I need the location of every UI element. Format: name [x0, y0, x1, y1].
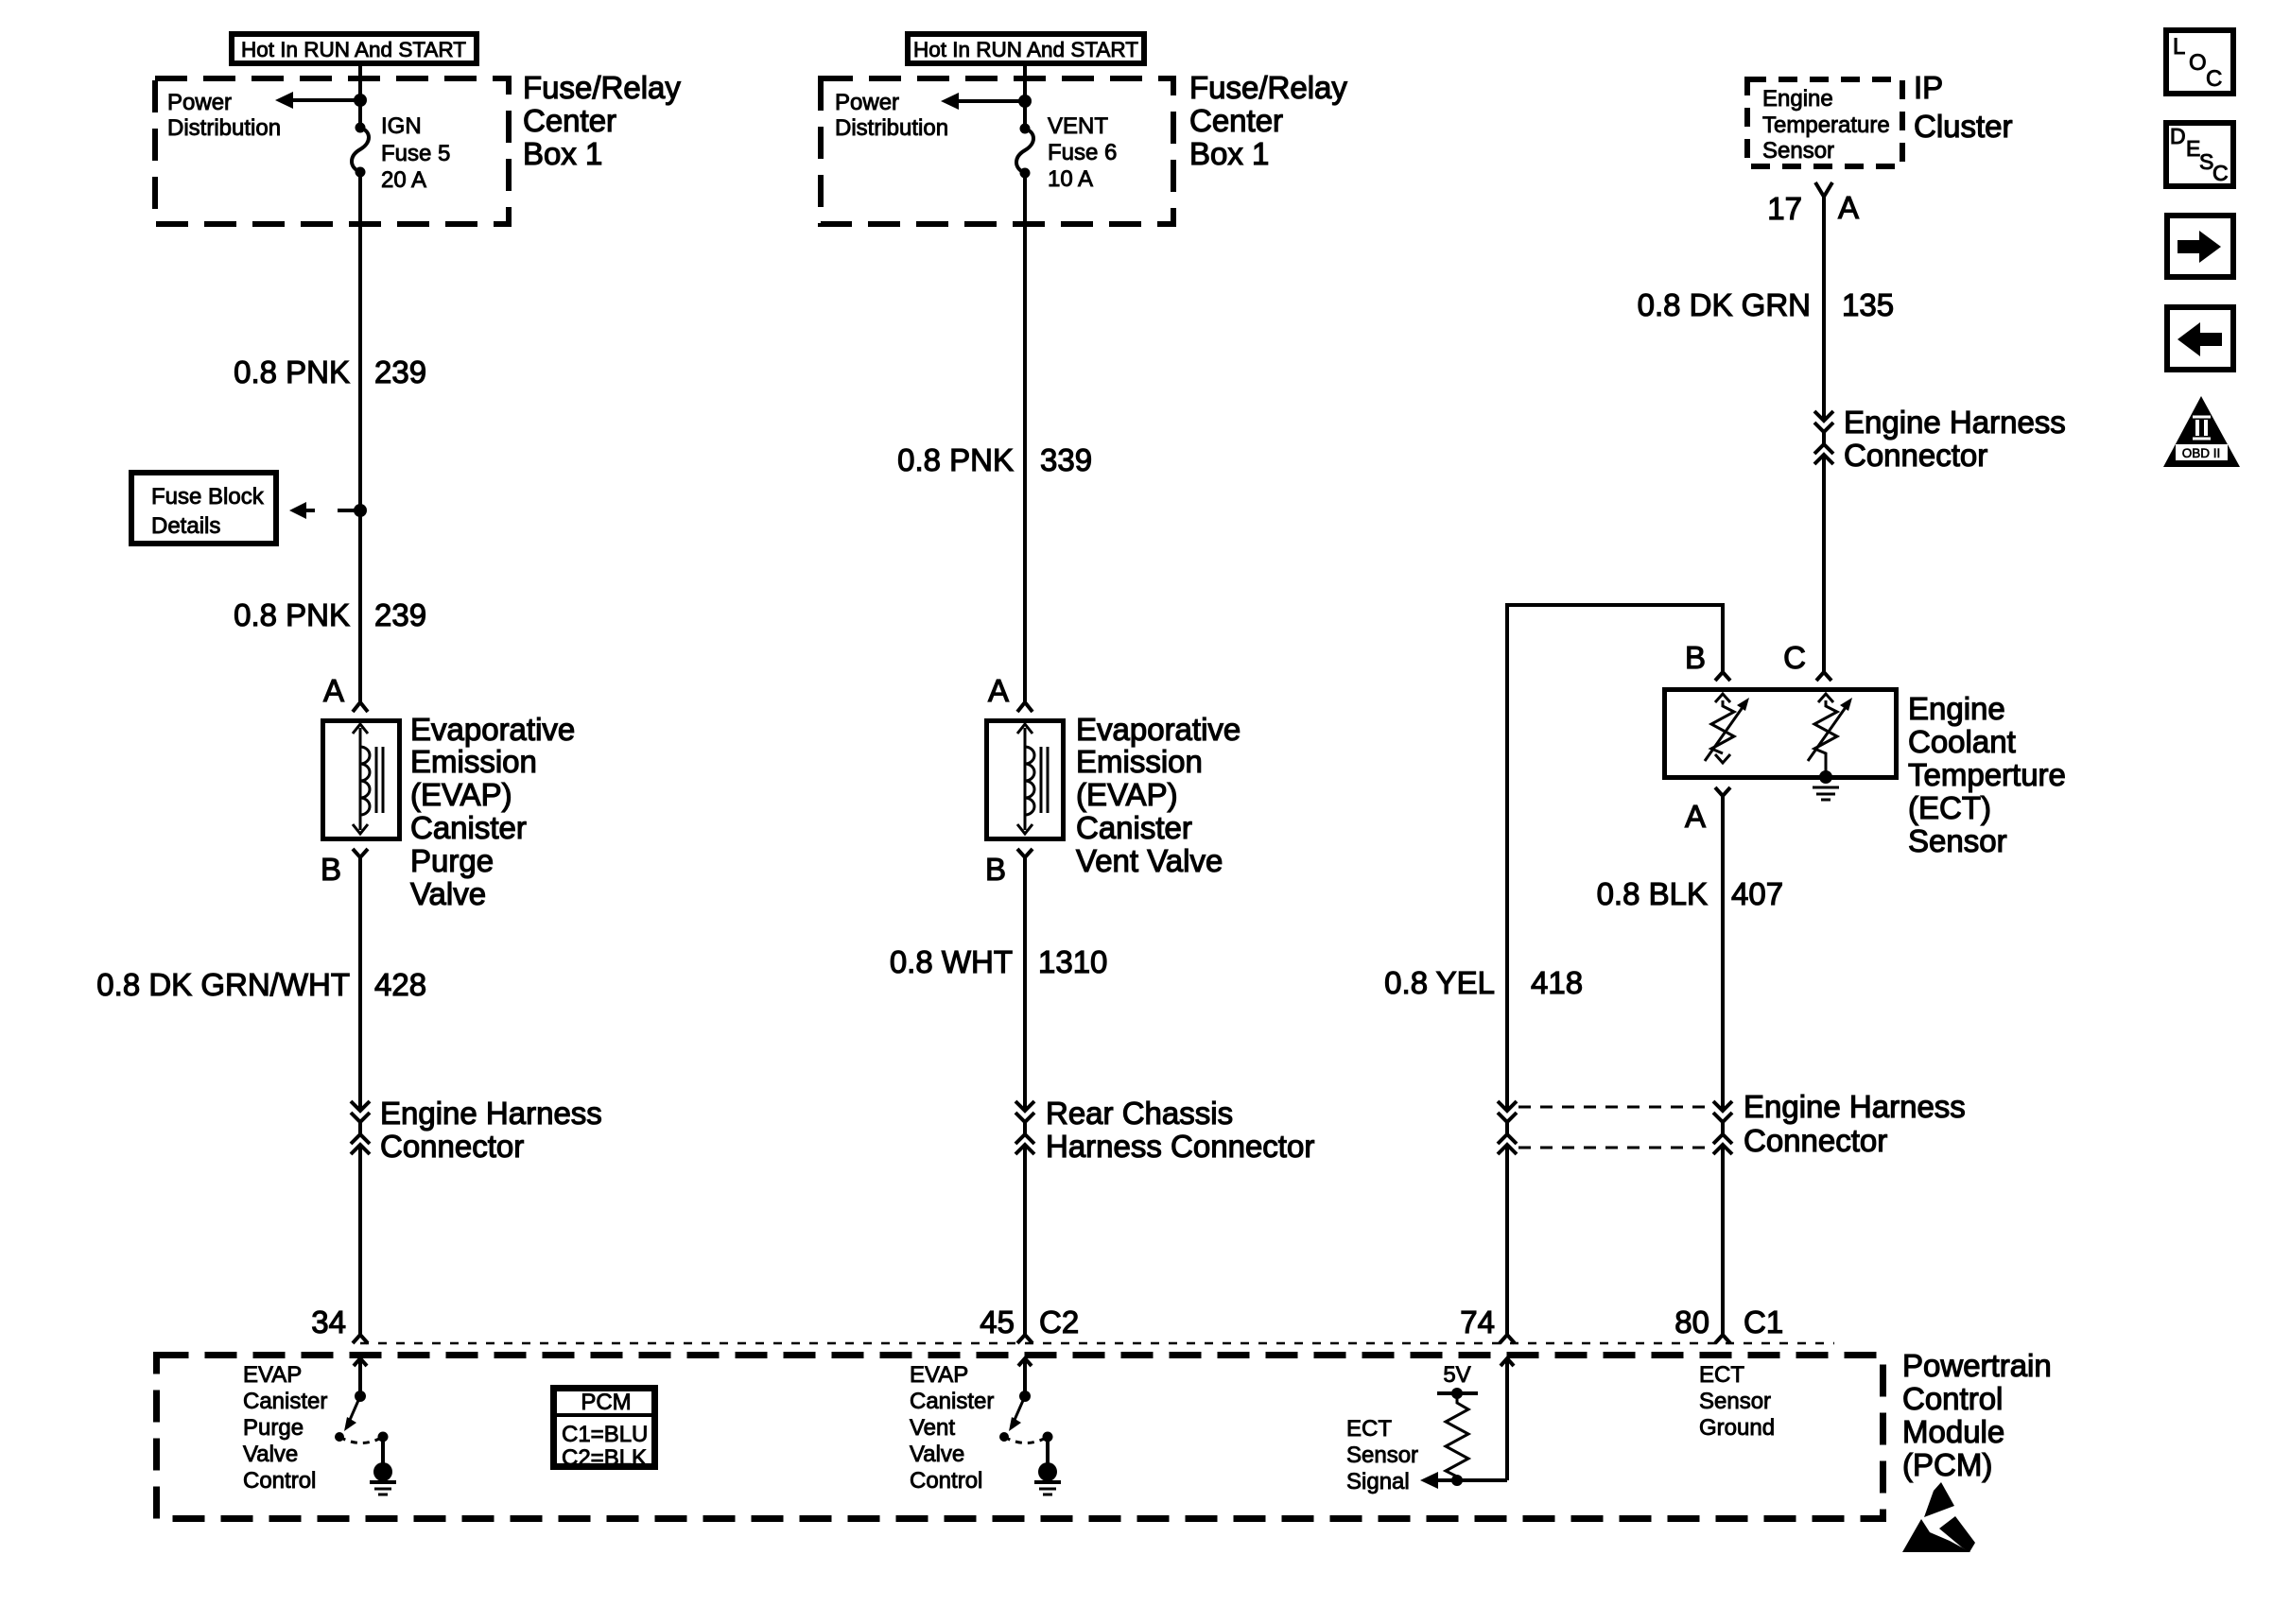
component: Powertrain Control Module dashed box — [157, 1356, 1883, 1519]
label: Fuse/Relay Center Box 1 (col 2) — [1189, 70, 1347, 171]
svg-text:0.8 BLK: 0.8 BLK — [1597, 876, 1708, 911]
node: 5V supply rail — [1437, 1362, 1478, 1399]
svg-text:Center: Center — [523, 103, 616, 138]
connector: Rear Chassis Harness Connector (inline) — [1015, 1101, 1034, 1154]
wire: dashed connector tie lines — [1518, 1107, 1711, 1148]
svg-text:D: D — [2170, 124, 2186, 148]
svg-text:239: 239 — [374, 597, 426, 632]
label: 0.8 DK GRN 135 — [1638, 287, 1894, 322]
svg-text:45: 45 — [980, 1304, 1015, 1339]
connector: Engine Harness Connector (col 3 top inline) — [1814, 411, 1833, 464]
label: 0.8 BLK 407 — [1597, 876, 1783, 911]
wire: arrow to Power Distribution (col 1) — [275, 92, 360, 109]
label: Engine Coolant Temperture (ECT) Sensor — [1908, 691, 2066, 858]
svg-text:C: C — [2212, 161, 2229, 185]
svg-text:Engine: Engine — [1762, 86, 1833, 112]
svg-text:339: 339 — [1040, 442, 1092, 477]
label: Engine Harness Connector (col 3 bottom) — [1744, 1089, 1966, 1158]
svg-text:Fuse 5: Fuse 5 — [381, 141, 450, 166]
label: Evaporative Emission (EVAP) Canister Vent Valve — [1076, 712, 1241, 878]
svg-text:IGN: IGN — [381, 113, 422, 139]
wire: 0.8 DK GRN/WHT 428 (valve pin B down) — [358, 857, 362, 1111]
label: Evaporative Emission (EVAP) Canister Purge Valve — [410, 712, 575, 911]
label: pin 45 C2 — [980, 1304, 1079, 1339]
pin B terminal (ECT sensor) — [1715, 672, 1730, 681]
svg-text:Purge: Purge — [243, 1415, 304, 1441]
svg-text:Control: Control — [1902, 1381, 2003, 1416]
component: EVAP Canister Vent Valve solenoid — [987, 721, 1064, 839]
ground: ECT internal ground — [1813, 787, 1839, 800]
wire: thin dashed connector face line — [360, 1342, 1834, 1345]
wire: DK GRN to ECT pin C — [1822, 455, 1826, 672]
wire: YEL branch top horizontal — [1507, 603, 1723, 1111]
svg-text:O: O — [2189, 50, 2207, 76]
node: junction dot at Power Distribution tap (col 1) — [354, 94, 367, 107]
wire: dashed arrow to Fuse Block Details — [289, 502, 360, 519]
svg-text:239: 239 — [374, 354, 426, 389]
icon: arrow right button — [2167, 216, 2233, 277]
svg-text:Ground: Ground — [1699, 1415, 1775, 1441]
svg-text:Box 1: Box 1 — [1189, 136, 1269, 171]
svg-text:0.8 DK GRN/WHT: 0.8 DK GRN/WHT — [96, 967, 350, 1002]
svg-text:80: 80 — [1674, 1304, 1709, 1339]
fuse F5: IGN Fuse 5 20 A — [352, 123, 369, 178]
icon: OBD II triangle — [2163, 396, 2240, 467]
svg-text:Details: Details — [151, 513, 220, 539]
svg-text:Emission: Emission — [410, 744, 537, 779]
node: PCM connector legend box — [550, 1389, 658, 1472]
label: IGN Fuse 5 20 A — [381, 113, 450, 193]
thermistor 2 (ECT C-ground) — [1808, 694, 1852, 784]
svg-text:Power: Power — [167, 90, 232, 115]
svg-text:Engine Harness: Engine Harness — [1744, 1089, 1966, 1124]
svg-text:Module: Module — [1902, 1414, 2004, 1449]
pin 74 terminal at PCM — [1500, 1335, 1515, 1343]
svg-text:PCM: PCM — [581, 1390, 631, 1415]
svg-text:Engine: Engine — [1908, 691, 2005, 726]
svg-text:Valve: Valve — [910, 1442, 964, 1467]
label: EVAP Canister Purge Valve Control — [243, 1362, 327, 1494]
svg-text:Box 1: Box 1 — [523, 136, 602, 171]
pin B terminal (vent valve) — [1017, 849, 1032, 857]
svg-text:Evaporative: Evaporative — [1076, 712, 1241, 747]
wire: feed from Hot box into fuse (col 1) — [358, 66, 362, 128]
svg-text:Control: Control — [910, 1468, 982, 1494]
svg-text:Evaporative: Evaporative — [410, 712, 575, 747]
wire: BLK to PCM pin 80 — [1721, 1145, 1725, 1335]
svg-text:OBD II: OBD II — [2182, 446, 2221, 460]
wire: YEL to PCM pin 74 — [1505, 1145, 1509, 1335]
node: Hot In RUN And START (col 1) — [232, 34, 477, 63]
label: VENT Fuse 6 10 A — [1048, 113, 1117, 192]
icon: LOC button — [2166, 30, 2233, 94]
label: ECT Sensor Ground — [1699, 1362, 1775, 1441]
label: ECT Sensor Signal — [1346, 1416, 1418, 1494]
label: Powertrain Control Module (PCM) — [1902, 1348, 2052, 1482]
svg-text:Connector: Connector — [1844, 438, 1987, 473]
svg-text:Fuse Block: Fuse Block — [151, 484, 265, 510]
svg-text:Rear Chassis: Rear Chassis — [1046, 1096, 1233, 1131]
svg-text:Coolant: Coolant — [1908, 724, 2016, 759]
svg-text:17: 17 — [1767, 191, 1802, 226]
svg-text:C2=BLK: C2=BLK — [562, 1445, 647, 1471]
label: 0.8 WHT 1310 — [890, 944, 1108, 979]
switch: EVAP Canister Vent Valve Control driver — [999, 1358, 1061, 1494]
wire: to PCM pin 34 — [358, 1145, 362, 1335]
pin C terminal (ECT sensor) — [1816, 672, 1831, 681]
svg-text:Harness Connector: Harness Connector — [1046, 1129, 1314, 1164]
svg-text:C1: C1 — [1744, 1304, 1783, 1339]
svg-text:Distribution: Distribution — [167, 115, 281, 141]
label: Rear Chassis Harness Connector — [1046, 1096, 1314, 1164]
label: IP Cluster — [1914, 70, 2013, 144]
svg-text:ECT: ECT — [1346, 1416, 1392, 1442]
node: junction dot at Power Distribution tap (col 2) — [1018, 95, 1032, 108]
label: Power Distribution (col 1) — [167, 90, 281, 141]
svg-text:Fuse/Relay: Fuse/Relay — [1189, 70, 1347, 105]
wire: feed from Hot box into fuse (col 2) — [1023, 66, 1027, 129]
svg-text:0.8 PNK: 0.8 PNK — [234, 597, 350, 632]
label: pin 17 A — [1767, 190, 1859, 226]
svg-text:0.8 YEL: 0.8 YEL — [1384, 965, 1495, 1000]
svg-text:Cluster: Cluster — [1914, 109, 2013, 144]
label: 0.8 PNK 239 (upper) — [234, 354, 426, 389]
svg-text:B: B — [985, 852, 1006, 887]
component: Engine Coolant Temperature (ECT) Sensor — [1665, 690, 1897, 778]
icon: arrow left button — [2167, 307, 2233, 370]
svg-text:(ECT): (ECT) — [1908, 790, 1991, 825]
svg-text:Control: Control — [243, 1468, 316, 1494]
svg-text:(EVAP): (EVAP) — [410, 777, 512, 812]
svg-text:Distribution: Distribution — [835, 115, 948, 141]
svg-text:IP: IP — [1914, 70, 1943, 105]
svg-text:Hot In RUN And START: Hot In RUN And START — [913, 38, 1138, 61]
connector: Engine Harness Connector (col 3 bottom, YEL wire) — [1498, 1101, 1517, 1154]
pin B terminal (purge valve) — [353, 849, 368, 857]
wire: 0.8 PNK 339 (fuse 6 to EVAP vent valve pin A) — [1023, 173, 1027, 701]
svg-text:A: A — [323, 673, 344, 708]
svg-text:VENT: VENT — [1048, 113, 1108, 139]
label: 0.8 DK GRN/WHT 428 — [96, 967, 426, 1002]
svg-text:Sensor: Sensor — [1699, 1389, 1771, 1414]
svg-text:Canister: Canister — [910, 1389, 994, 1414]
svg-text:Canister: Canister — [243, 1389, 327, 1414]
svg-text:34: 34 — [311, 1304, 346, 1339]
label: pin 80 C1 — [1674, 1304, 1783, 1339]
svg-text:Fuse/Relay: Fuse/Relay — [523, 70, 681, 105]
svg-text:1310: 1310 — [1038, 944, 1107, 979]
pin 17 terminal at IP cluster — [1815, 182, 1832, 197]
pin A terminal (purge valve) — [353, 702, 368, 712]
svg-text:0.8 PNK: 0.8 PNK — [897, 442, 1014, 477]
svg-text:135: 135 — [1842, 287, 1894, 322]
svg-text:Connector: Connector — [380, 1129, 524, 1164]
svg-text:Temperature: Temperature — [1762, 112, 1890, 138]
wire: 0.8 WHT 1310 (vent valve pin B down) — [1023, 857, 1027, 1111]
switch: EVAP Canister Purge Valve Control driver — [335, 1358, 396, 1494]
svg-text:Engine Harness: Engine Harness — [380, 1096, 602, 1131]
svg-text:Vent Valve: Vent Valve — [1076, 843, 1223, 878]
svg-text:C: C — [1783, 640, 1806, 675]
ground (vent valve driver) — [1034, 1480, 1061, 1484]
label: Engine Harness Connector (col 1) — [380, 1096, 602, 1164]
svg-text:Valve: Valve — [243, 1442, 298, 1467]
wire: 0.8 PNK 239 (fuse 5 to EVAP purge valve pin A) — [358, 172, 362, 701]
svg-text:5V: 5V — [1443, 1362, 1470, 1388]
resistor: ECT pull-up — [1446, 1393, 1468, 1480]
svg-text:Sensor: Sensor — [1346, 1443, 1418, 1468]
svg-text:Valve: Valve — [410, 876, 486, 911]
svg-text:ECT: ECT — [1699, 1362, 1744, 1388]
icon: ESD warning triangle — [1902, 1482, 1975, 1552]
node: junction dot at signal line — [1451, 1475, 1463, 1486]
Fuse/Relay Center Box 1 dashed box (col 1) — [155, 78, 509, 224]
svg-text:0.8 PNK: 0.8 PNK — [234, 354, 350, 389]
wire: ECT sensor signal with arrow — [1420, 1358, 1514, 1489]
svg-text:B: B — [321, 852, 341, 887]
svg-text:Sensor: Sensor — [1762, 138, 1834, 164]
pin 34 terminal at PCM — [353, 1335, 368, 1343]
svg-text:Engine Harness: Engine Harness — [1844, 405, 2066, 440]
svg-text:A: A — [988, 673, 1009, 708]
node: Engine Temperature Sensor (IP cluster) dashed box — [1747, 79, 1902, 166]
thermistor 1 (ECT B-A) — [1705, 694, 1749, 763]
Fuse/Relay Center Box 1 dashed box (col 2) — [821, 78, 1173, 224]
svg-text:Sensor: Sensor — [1908, 823, 2007, 858]
label: Engine Harness Connector (col 3 top) — [1844, 405, 2066, 473]
ground (purge valve driver) — [370, 1480, 396, 1484]
pin 80 terminal at PCM — [1715, 1335, 1730, 1343]
node: Fuse Block Details reference box — [131, 473, 276, 544]
svg-text:Connector: Connector — [1744, 1123, 1887, 1158]
node: junction dot to Fuse Block Details — [354, 504, 367, 517]
svg-text:Hot In RUN And START: Hot In RUN And START — [241, 38, 466, 61]
label: Fuse/Relay Center Box 1 (col 1) — [523, 70, 681, 171]
wire: 0.8 BLK 407 (ECT pin A to PCM pin 80) — [1721, 796, 1725, 1111]
pin 45 terminal at PCM — [1017, 1335, 1032, 1343]
pin A terminal (ECT sensor) — [1715, 787, 1730, 796]
svg-text:A: A — [1838, 190, 1859, 225]
svg-text:(PCM): (PCM) — [1902, 1447, 1992, 1482]
svg-text:L: L — [2173, 34, 2185, 60]
svg-text:0.8 WHT: 0.8 WHT — [890, 944, 1013, 979]
svg-text:0.8 DK GRN: 0.8 DK GRN — [1638, 287, 1811, 322]
svg-text:Canister: Canister — [410, 810, 527, 845]
connector: Engine Harness Connector (col 3 bottom, BLK wire) — [1713, 1101, 1732, 1154]
svg-text:EVAP: EVAP — [910, 1362, 968, 1388]
svg-text:Fuse 6: Fuse 6 — [1048, 140, 1117, 165]
svg-text:Canister: Canister — [1076, 810, 1192, 845]
svg-text:10 A: 10 A — [1048, 166, 1093, 192]
connector: Engine Harness Connector (col 1 inline) — [351, 1101, 370, 1154]
icon: DESC button — [2166, 123, 2233, 186]
label: 0.8 PNK 239 (lower) — [234, 597, 426, 632]
label: Power Distribution (col 2) — [835, 90, 948, 141]
wire: 0.8 DK GRN 135 (IP cluster to ECT pin C) — [1822, 197, 1826, 421]
svg-text:Vent: Vent — [910, 1415, 955, 1441]
svg-text:418: 418 — [1531, 965, 1583, 1000]
svg-text:Temperture: Temperture — [1908, 757, 2066, 792]
component: EVAP Canister Purge Valve solenoid — [323, 721, 400, 839]
svg-text:20 A: 20 A — [381, 167, 426, 193]
svg-text:407: 407 — [1731, 876, 1783, 911]
svg-text:C2: C2 — [1039, 1304, 1079, 1339]
svg-text:Center: Center — [1189, 103, 1283, 138]
svg-text:Emission: Emission — [1076, 744, 1203, 779]
svg-text:C: C — [2206, 66, 2222, 92]
svg-text:Power: Power — [835, 90, 899, 115]
svg-text:Purge: Purge — [410, 843, 494, 878]
svg-text:Signal: Signal — [1346, 1469, 1410, 1494]
svg-text:(EVAP): (EVAP) — [1076, 777, 1178, 812]
pin A terminal (vent valve) — [1017, 702, 1032, 712]
label: 0.8 PNK 339 — [897, 442, 1092, 477]
svg-text:A: A — [1685, 799, 1706, 834]
svg-text:428: 428 — [374, 967, 426, 1002]
svg-text:C1=BLU: C1=BLU — [562, 1422, 648, 1447]
node: Hot In RUN And START (col 2) — [908, 34, 1144, 63]
wire: arrow to Power Distribution (col 2) — [941, 93, 1025, 110]
svg-text:Powertrain: Powertrain — [1902, 1348, 2052, 1383]
svg-text:B: B — [1685, 640, 1706, 675]
svg-text:EVAP: EVAP — [243, 1362, 302, 1388]
svg-text:74: 74 — [1460, 1304, 1495, 1339]
fuse F6: VENT Fuse 6 10 A — [1016, 124, 1033, 179]
label: EVAP Canister Vent Valve Control — [910, 1362, 994, 1494]
label: 0.8 YEL 418 — [1384, 965, 1583, 1000]
wire: to PCM pin 45 — [1023, 1145, 1027, 1335]
